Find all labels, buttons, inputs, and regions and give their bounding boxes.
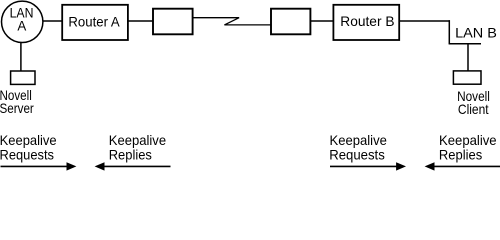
Keepalive Requests label (right) xyxy=(329,132,387,162)
wire LAN A to Router A xyxy=(43,20,62,22)
LAN B segment xyxy=(449,20,497,44)
svg-text:Router A: Router A xyxy=(68,13,120,29)
Router A xyxy=(62,5,128,40)
CSU/DSU box 1 xyxy=(153,9,193,35)
svg-text:Server: Server xyxy=(0,100,34,116)
wire LAN B to Novell Client xyxy=(467,44,469,72)
WAN zigzag link xyxy=(193,18,271,25)
svg-text:A: A xyxy=(17,18,27,34)
Novell Server box xyxy=(0,71,35,116)
Keepalive Requests arrow (right, pointing right) xyxy=(330,162,406,170)
Router B xyxy=(333,5,399,40)
Keepalive Replies label (left) xyxy=(109,132,167,162)
Keepalive Replies label (right) xyxy=(439,132,497,162)
Keepalive Replies arrow (right, pointing left) xyxy=(425,162,500,170)
wire Router B to LAN B xyxy=(399,20,450,22)
CSU/DSU box 2 xyxy=(271,9,310,35)
wire LAN A to Novell Server xyxy=(20,42,22,71)
Keepalive Requests arrow (left, pointing right) xyxy=(1,162,77,170)
svg-text:Replies: Replies xyxy=(439,146,482,162)
svg-text:Replies: Replies xyxy=(109,146,152,162)
Keepalive Requests label (left) xyxy=(0,132,57,162)
svg-text:Requests: Requests xyxy=(0,146,54,162)
svg-text:LAN B: LAN B xyxy=(455,25,497,41)
svg-text:Router B: Router B xyxy=(340,13,394,29)
svg-text:Client: Client xyxy=(458,101,489,117)
wire CSU/DSU 2 to Router B xyxy=(310,20,333,22)
LAN A circle xyxy=(2,1,43,42)
Novell Client box xyxy=(453,71,490,117)
svg-text:Requests: Requests xyxy=(329,146,385,162)
wire Router A to CSU/DSU 1 xyxy=(128,20,153,22)
Keepalive Replies arrow (left, pointing left) xyxy=(95,162,171,170)
